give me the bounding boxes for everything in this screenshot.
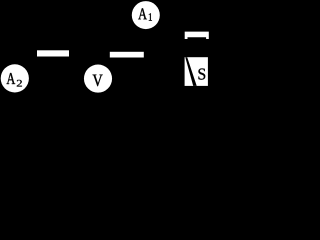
ammeter A2 <box>1 64 29 92</box>
battery <box>185 32 209 39</box>
resistor R1 <box>37 50 69 56</box>
switch S <box>185 57 208 86</box>
voltmeter V <box>84 65 112 93</box>
ammeter A1 <box>132 1 160 29</box>
resistor R2 <box>110 52 144 58</box>
